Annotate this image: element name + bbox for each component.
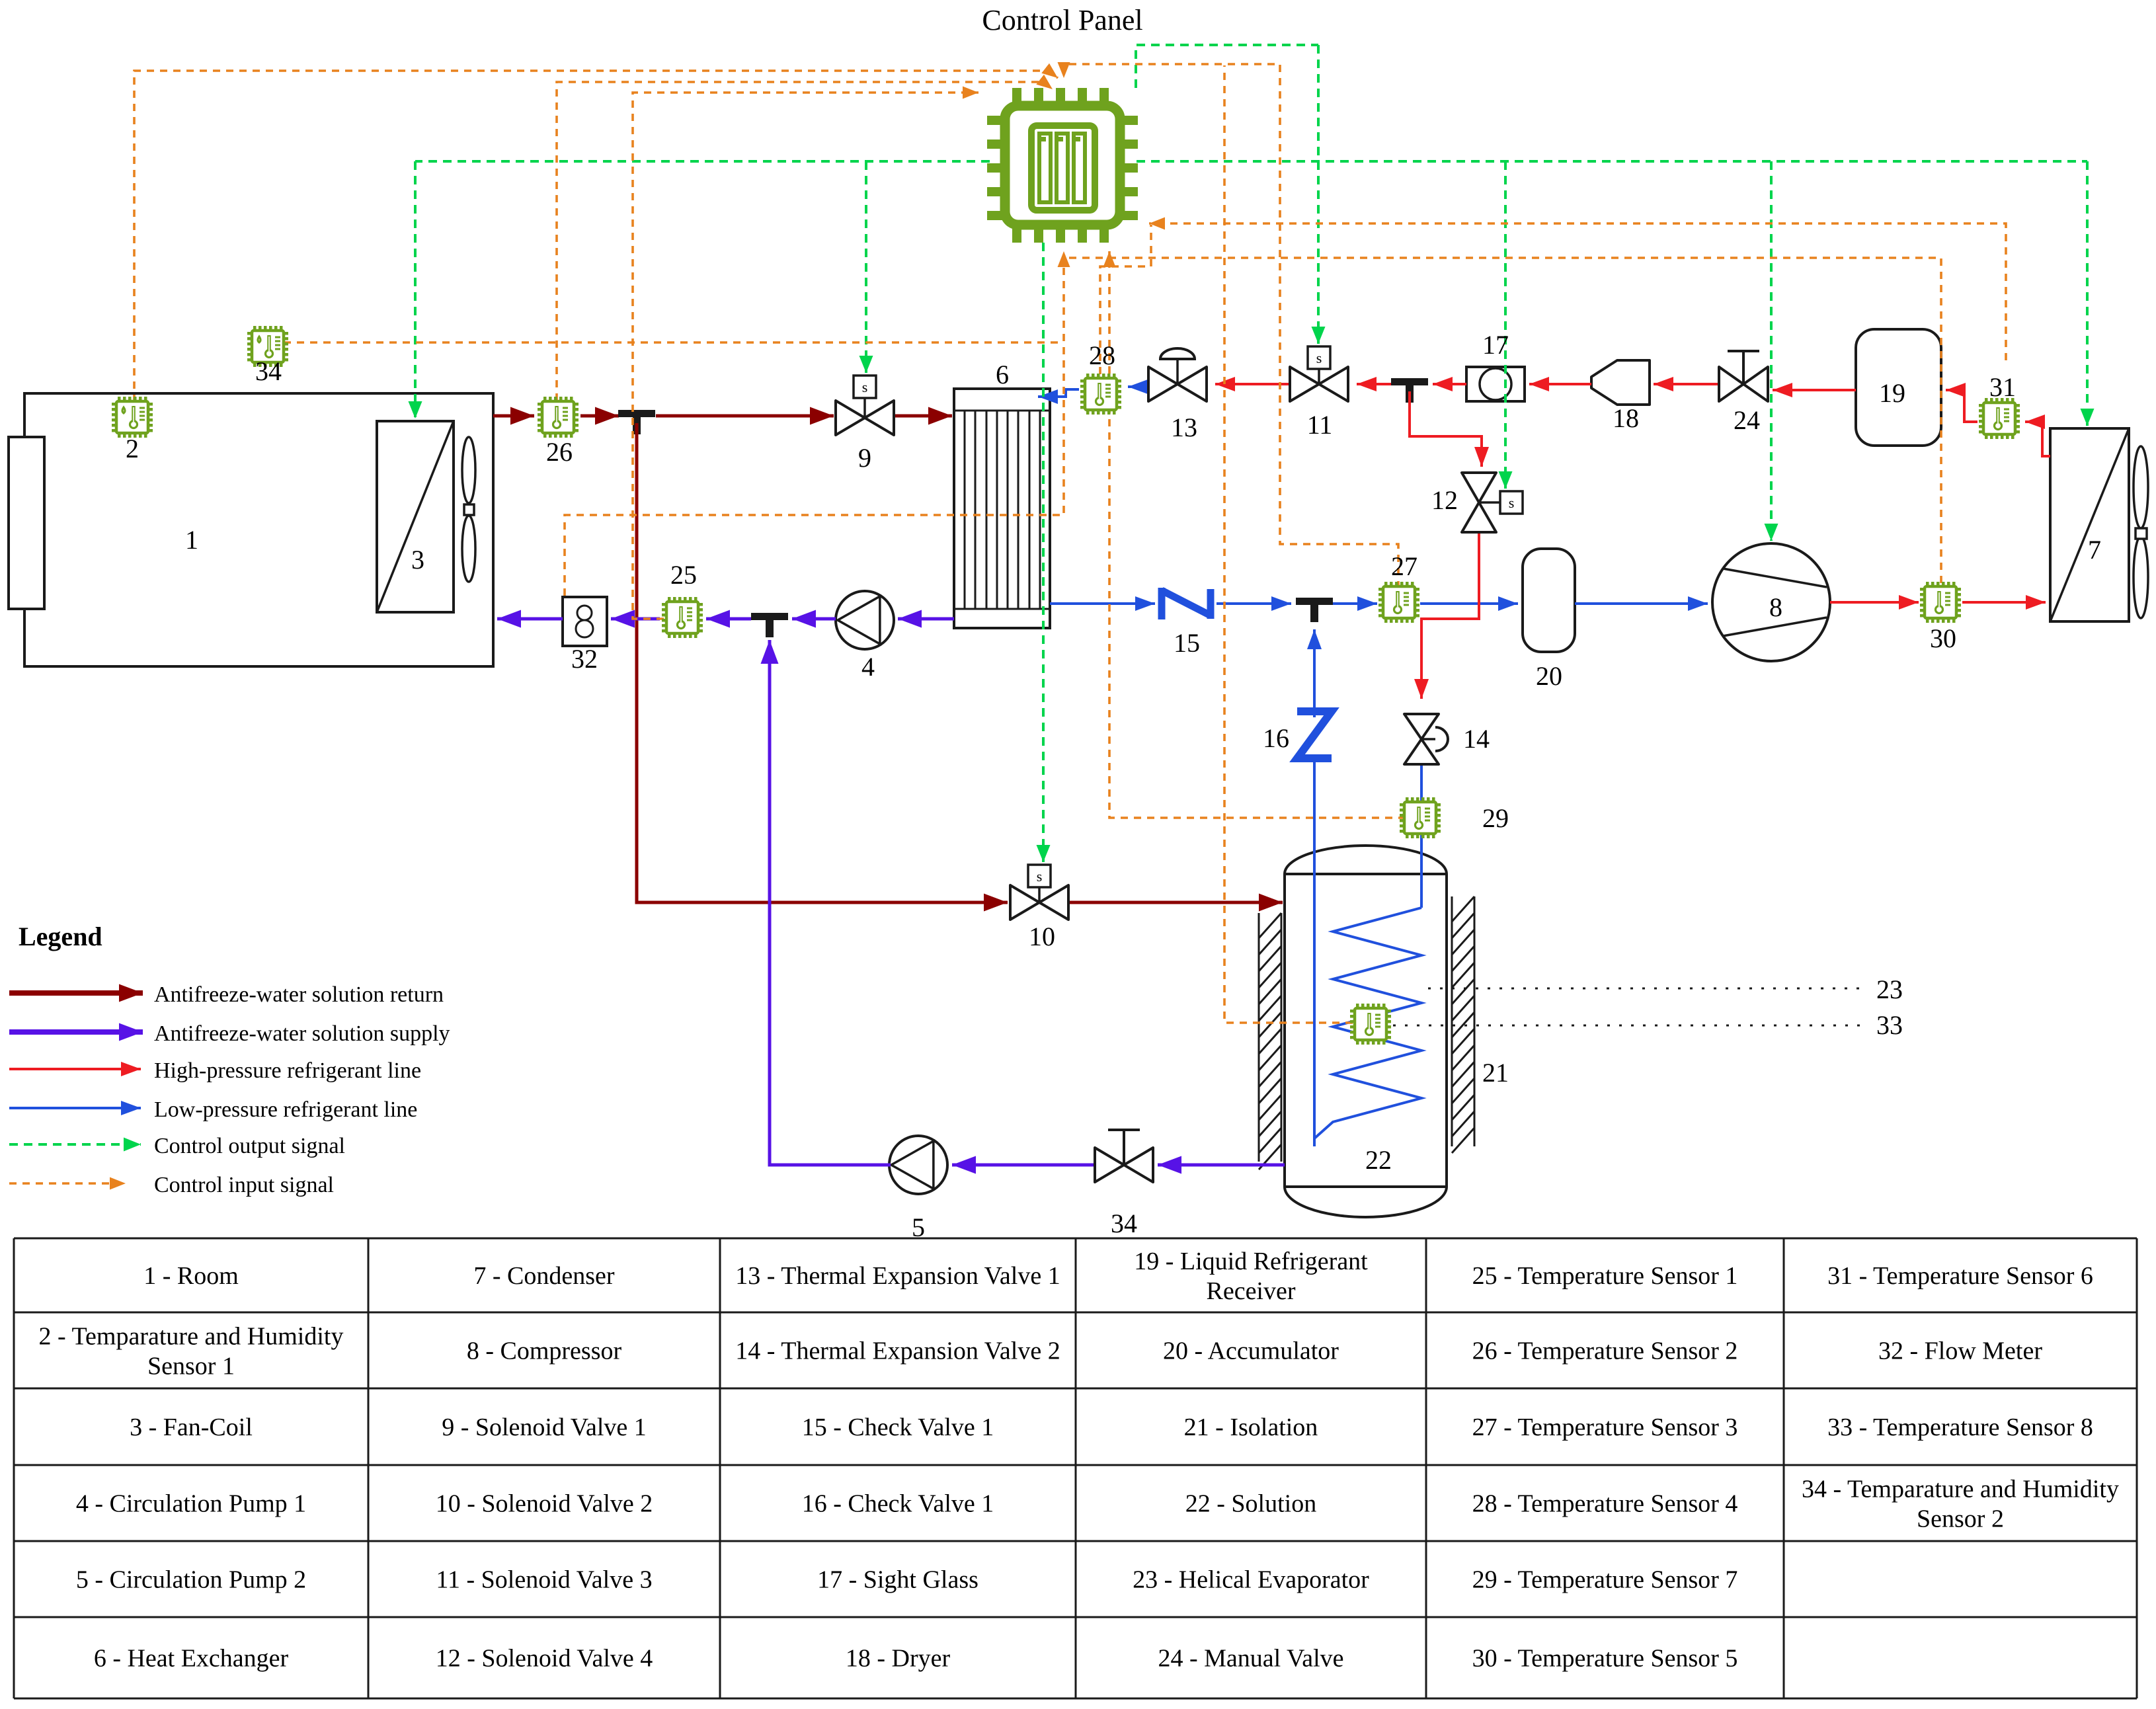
wire supply pump 4 to tee — [792, 617, 836, 621]
junction tee low-pressure — [1296, 598, 1333, 605]
svg-text:17 - Sight Glass: 17 - Sight Glass — [817, 1566, 978, 1594]
room 1 — [24, 393, 493, 666]
svg-text:s: s — [862, 379, 868, 395]
wire low-pressure tee to sensor 27 — [1333, 602, 1377, 605]
svg-text:Control input signal: Control input signal — [154, 1173, 334, 1197]
svg-text:25: 25 — [670, 560, 697, 590]
svg-text:4: 4 — [861, 652, 875, 682]
circulation pump 4 — [836, 591, 894, 649]
thermal expansion valve 13 — [1148, 367, 1207, 401]
wire high-pressure valve 12 to expansion valve 14 — [1421, 532, 1479, 699]
wire low-pressure 6 to check valve 15 — [1050, 602, 1155, 605]
wire green trunk A (panel to solenoid valve 11) — [1136, 45, 1318, 88]
svg-text:High-pressure refrigerant line: High-pressure refrigerant line — [154, 1058, 421, 1083]
svg-text:21 - Isolation: 21 - Isolation — [1184, 1413, 1318, 1441]
svg-text:Legend: Legend — [19, 922, 102, 951]
legend return arrow — [9, 990, 143, 996]
check valve 15 — [1162, 588, 1211, 619]
sensor 29 (temperature sensor 7) — [1400, 797, 1441, 838]
wire low-pressure valve 13 to sensor 28 — [1128, 385, 1148, 388]
svg-text:32: 32 — [571, 644, 598, 674]
legend control input arrow — [9, 1182, 126, 1185]
svg-text:27: 27 — [1391, 551, 1417, 581]
component table grid — [13, 1238, 15, 1698]
wire high-pressure valve 11 to valve 13 — [1215, 383, 1290, 385]
svg-text:25 - Temperature Sensor 1: 25 - Temperature Sensor 1 — [1472, 1262, 1738, 1290]
svg-text:s: s — [1316, 350, 1322, 366]
svg-text:9 - Solenoid Valve 1: 9 - Solenoid Valve 1 — [442, 1413, 647, 1441]
svg-text:15: 15 — [1174, 628, 1200, 658]
svg-text:s: s — [1509, 495, 1515, 511]
manual valve 24 — [1719, 367, 1768, 401]
wire high-pressure sight glass 17 to tee — [1433, 383, 1466, 385]
fan-coil fan blades — [462, 437, 475, 503]
junction tee supply — [751, 613, 788, 620]
svg-text:s: s — [1037, 868, 1043, 885]
sensor 27 (temperature sensor 3) — [1378, 582, 1419, 623]
wire orange from sensor 29 to panel — [1109, 251, 1432, 818]
sensor 31 (temperature sensor 6) — [1979, 398, 2020, 439]
heat exchanger 6 — [954, 389, 1050, 628]
dotted leader to label 33 — [1393, 1025, 1864, 1027]
svg-text:27 - Temperature Sensor 3: 27 - Temperature Sensor 3 — [1472, 1413, 1738, 1441]
svg-text:2: 2 — [126, 434, 139, 463]
svg-text:Antifreeze-water solution supp: Antifreeze-water solution supply — [154, 1021, 450, 1046]
svg-text:14 - Thermal Expansion Valve 2: 14 - Thermal Expansion Valve 2 — [735, 1337, 1060, 1365]
svg-text:18: 18 — [1613, 403, 1639, 433]
svg-text:7 - Condenser: 7 - Condenser — [473, 1262, 615, 1290]
wire high-pressure tee branch to valve 12 — [1410, 391, 1482, 467]
wire supply sensor 25 to flow meter 32 — [611, 617, 660, 621]
dryer 18 — [1591, 360, 1650, 405]
svg-text:31: 31 — [1989, 372, 2016, 402]
svg-text:3: 3 — [411, 545, 424, 575]
wire high-pressure condenser 7 to sensor 31 — [2025, 422, 2050, 456]
svg-text:3 - Fan-Coil: 3 - Fan-Coil — [130, 1413, 253, 1441]
check valve 16 — [1297, 711, 1332, 758]
svg-text:11: 11 — [1307, 410, 1333, 440]
svg-text:22 - Solution: 22 - Solution — [1185, 1490, 1316, 1518]
wire supply flow meter 32 to room — [497, 617, 563, 621]
svg-text:34: 34 — [1111, 1209, 1137, 1238]
legend low-pressure arrow — [9, 1107, 141, 1109]
accumulator 20 — [1523, 549, 1575, 652]
wire low-pressure 15 to tee — [1217, 602, 1291, 605]
legend supply arrow — [9, 1029, 143, 1035]
solenoid valve 9 — [836, 401, 894, 435]
wire orange from sensor 33 to trunk — [1224, 65, 1353, 1023]
svg-text:16 - Check Valve 1: 16 - Check Valve 1 — [802, 1490, 994, 1518]
svg-text:8: 8 — [1769, 592, 1782, 622]
isolation 21 hatch left — [1259, 913, 1281, 1162]
solenoid valve 10 — [1010, 885, 1068, 920]
svg-text:10: 10 — [1029, 922, 1055, 951]
manual valve 34 — [1095, 1148, 1153, 1182]
circulation pump 5 — [889, 1136, 947, 1194]
svg-text:34: 34 — [255, 356, 282, 386]
thermal expansion valve 14 — [1404, 714, 1439, 764]
wire low-pressure sensor 28 to heat exchanger 6 — [1038, 389, 1079, 397]
svg-text:7: 7 — [2088, 535, 2101, 565]
svg-text:26 - Temperature Sensor 2: 26 - Temperature Sensor 2 — [1472, 1337, 1738, 1365]
wire green trunk B-left (panel to fan-coil 3 and valve 9) — [415, 160, 990, 163]
wire high-pressure compressor 8 to sensor 30 — [1830, 601, 1919, 604]
wire low-pressure sensor 27 to accumulator 20 — [1420, 602, 1518, 605]
svg-text:18 - Dryer: 18 - Dryer — [846, 1645, 951, 1673]
svg-text:32 - Flow Meter: 32 - Flow Meter — [1878, 1337, 2042, 1365]
fan-coil 3 — [377, 421, 454, 612]
svg-text:15 - Check Valve 1: 15 - Check Valve 1 — [802, 1413, 994, 1441]
wire orange from sensor 25 to panel — [633, 93, 978, 619]
svg-text:Antifreeze-water solution retu: Antifreeze-water solution return — [154, 982, 444, 1007]
svg-text:11 - Solenoid Valve 3: 11 - Solenoid Valve 3 — [436, 1566, 652, 1594]
wire low-pressure coil up through tank to check valve 16 — [1313, 760, 1316, 1146]
svg-text:5 - Circulation Pump 2: 5 - Circulation Pump 2 — [76, 1566, 306, 1594]
wire return tee down to valve 10 — [637, 423, 1008, 902]
wire supply valve 34 to pump 5 — [952, 1164, 1095, 1167]
svg-text:19 - Liquid Refrigerant: 19 - Liquid Refrigerant — [1134, 1248, 1368, 1275]
svg-text:Control output signal: Control output signal — [154, 1134, 345, 1158]
svg-text:20 - Accumulator: 20 - Accumulator — [1163, 1337, 1339, 1365]
svg-text:4 - Circulation Pump 1: 4 - Circulation Pump 1 — [76, 1490, 306, 1518]
wire orange from sensor 30 to riser — [1065, 258, 1941, 583]
svg-text:23: 23 — [1876, 974, 1903, 1004]
svg-text:10 - Solenoid Valve 2: 10 - Solenoid Valve 2 — [436, 1490, 653, 1518]
wire orange trunk C from sensor 31 to panel — [1149, 223, 2006, 360]
svg-text:8 - Compressor: 8 - Compressor — [467, 1337, 622, 1365]
wire green drop (panel to solenoid valve 10) — [1042, 243, 1045, 862]
svg-text:22: 22 — [1365, 1145, 1392, 1175]
wire orange from sensor 28 to trunk C — [1100, 225, 1151, 374]
control panel U-CP (microcontroller chip) — [1012, 88, 1021, 108]
svg-text:30 - Temperature Sensor 5: 30 - Temperature Sensor 5 — [1472, 1645, 1738, 1673]
legend high-pressure arrow — [9, 1068, 141, 1070]
svg-text:33 - Temperature Sensor 8: 33 - Temperature Sensor 8 — [1827, 1413, 2093, 1441]
legend control output arrow — [9, 1143, 141, 1146]
wire orange from sensor 2 to panel — [134, 71, 1058, 402]
condenser 7 — [2050, 428, 2129, 621]
wire return valve 9 to heat exchanger 6 — [894, 415, 952, 418]
wire return valve 10 to tank — [1068, 901, 1283, 904]
svg-text:1: 1 — [185, 525, 198, 555]
condenser fan blades — [2134, 446, 2148, 528]
svg-text:14: 14 — [1463, 724, 1490, 754]
svg-text:17: 17 — [1482, 330, 1509, 360]
dotted leader to label 23 — [1428, 988, 1864, 990]
junction tee return — [618, 410, 655, 417]
liquid refrigerant receiver 19 — [1856, 329, 1941, 446]
svg-text:34 - Temparature and Humidity: 34 - Temparature and Humidity — [1802, 1476, 2119, 1503]
wire high-pressure valve 24 to dryer 18 — [1654, 383, 1719, 385]
wire return sensor 26 to tee — [580, 415, 619, 418]
wire high-pressure sensor 31 to receiver 19 — [1946, 390, 1977, 422]
svg-text:13 - Thermal Expansion Valve 1: 13 - Thermal Expansion Valve 1 — [735, 1262, 1060, 1290]
solution tank 22 — [1285, 846, 1447, 1217]
flow meter 32 — [563, 597, 607, 646]
isolation 21 hatch right — [1452, 896, 1474, 1146]
svg-text:6: 6 — [996, 360, 1009, 389]
svg-text:Receiver: Receiver — [1206, 1277, 1295, 1305]
svg-text:24 - Manual Valve: 24 - Manual Valve — [1158, 1645, 1343, 1673]
wire supply tee to sensor 25 — [706, 617, 751, 621]
sensor 28 (temperature sensor 4) — [1080, 374, 1121, 415]
wire low-pressure expansion valve 14 down to coil — [1420, 764, 1423, 908]
svg-text:21: 21 — [1482, 1058, 1509, 1088]
svg-text:31 - Temperature Sensor 6: 31 - Temperature Sensor 6 — [1827, 1262, 2093, 1290]
svg-text:9: 9 — [858, 443, 871, 473]
wire low-pressure check valve 16 up to tee — [1313, 629, 1316, 717]
sensor 33 (temperature sensor 8) — [1350, 1004, 1391, 1045]
wire orange riser from flow meter 32 to panel — [565, 251, 1064, 596]
wire high-pressure receiver 19 to valve 24 — [1773, 389, 1856, 391]
svg-text:19: 19 — [1879, 378, 1905, 408]
svg-text:2 - Temparature and Humidity: 2 - Temparature and Humidity — [39, 1323, 344, 1351]
svg-text:16: 16 — [1263, 723, 1289, 753]
junction tee high-pressure — [1391, 378, 1428, 385]
wire green trunk B-right (panel to valve 12, compressor 8, condenser 7) — [1137, 160, 2087, 163]
wire orange from sensor 27 to panel — [1064, 64, 1398, 588]
compressor 8 — [1712, 543, 1830, 661]
wire orange from sensor 34 to riser — [284, 341, 1064, 344]
svg-text:23 - Helical Evaporator: 23 - Helical Evaporator — [1133, 1566, 1369, 1594]
solenoid valve 12 — [1462, 473, 1496, 532]
wire return tee to valve 9 — [656, 415, 834, 418]
wire high-pressure tee to valve 11 — [1357, 383, 1391, 385]
wire orange from sensor 26 to panel — [557, 82, 1053, 414]
svg-text:Sensor 1: Sensor 1 — [147, 1353, 235, 1380]
svg-text:30: 30 — [1930, 623, 1956, 653]
svg-text:26: 26 — [546, 437, 573, 467]
svg-text:29 - Temperature Sensor 7: 29 - Temperature Sensor 7 — [1472, 1566, 1738, 1594]
svg-text:33: 33 — [1876, 1010, 1903, 1040]
sensor 30 (temperature sensor 5) — [1920, 582, 1961, 623]
svg-text:28: 28 — [1089, 340, 1115, 370]
sensor 34 (temperature and humidity sensor 2) — [247, 326, 288, 367]
room window — [9, 437, 44, 609]
wire supply heat exchanger to pump 4 — [898, 617, 954, 621]
wire supply tank to valve 34 — [1158, 1164, 1285, 1167]
wire return room to sensor 26 — [493, 415, 534, 418]
svg-text:24: 24 — [1734, 405, 1760, 435]
sight glass 17 — [1466, 367, 1525, 401]
svg-text:1 - Room: 1 - Room — [143, 1262, 239, 1290]
wire low-pressure accumulator 20 to compressor 8 — [1575, 602, 1708, 605]
svg-text:12 - Solenoid Valve 4: 12 - Solenoid Valve 4 — [436, 1645, 653, 1673]
svg-text:20: 20 — [1536, 661, 1562, 691]
wire supply from pump 5 up to tee — [770, 640, 891, 1165]
sensor 2 (temperature and humidity sensor 1) — [112, 397, 153, 438]
svg-text:Low-pressure refrigerant line: Low-pressure refrigerant line — [154, 1097, 417, 1122]
wire high-pressure dryer 18 to sight glass 17 — [1529, 383, 1591, 385]
solenoid valve 11 — [1290, 367, 1348, 401]
svg-text:Sensor 2: Sensor 2 — [1917, 1505, 2004, 1533]
svg-text:Control Panel: Control Panel — [982, 4, 1142, 36]
sensor 26 (temperature sensor 2) — [538, 397, 579, 438]
svg-text:29: 29 — [1482, 803, 1509, 833]
helical evaporator 23 coil — [1314, 908, 1421, 1138]
wire high-pressure sensor 30 to condenser 7 — [1962, 601, 2046, 604]
svg-text:6 - Heat Exchanger: 6 - Heat Exchanger — [94, 1645, 289, 1673]
svg-text:12: 12 — [1431, 485, 1458, 515]
sensor 25 (temperature sensor 1) — [662, 597, 703, 638]
svg-text:13: 13 — [1171, 413, 1197, 442]
svg-text:28 - Temperature Sensor 4: 28 - Temperature Sensor 4 — [1472, 1490, 1738, 1518]
